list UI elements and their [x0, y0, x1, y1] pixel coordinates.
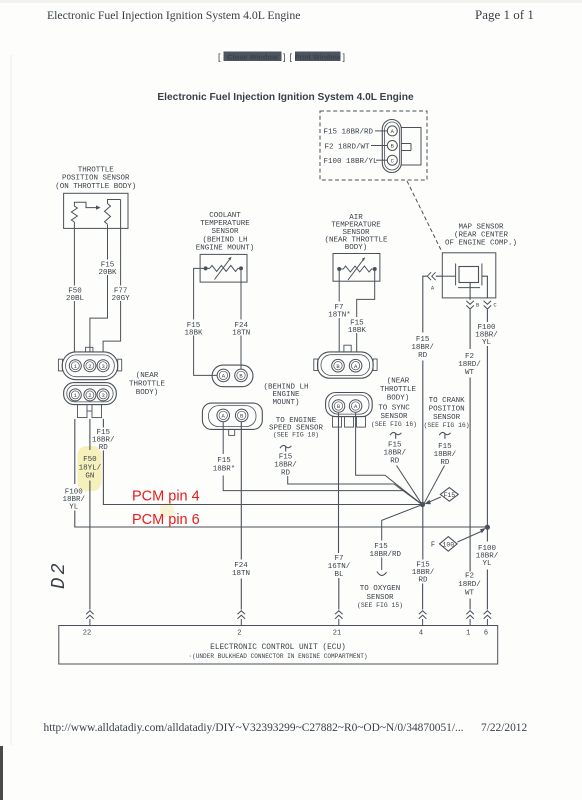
- wire oxygen sensor branch: [377, 505, 423, 576]
- connector detail body: [382, 120, 401, 173]
- air thermistor: [337, 257, 377, 280]
- close window button: [218, 52, 286, 63]
- to oxygen sensor label: [357, 585, 403, 609]
- svg-text:(ON THROTTLE BODY): (ON THROTTLE BODY): [55, 183, 136, 191]
- svg-text:16TN/: 16TN/: [328, 563, 351, 571]
- diagram heading: [157, 92, 414, 103]
- wire F15 pin3: [103, 419, 420, 505]
- svg-text:]: ]: [283, 52, 286, 62]
- label F50 18YL/GN: [79, 456, 102, 481]
- label F15 18BR/RD pin3: [92, 429, 115, 452]
- svg-text:MAP SENSOR: MAP SENSOR: [458, 223, 504, 231]
- label F100 18BR/YL pin1: [63, 489, 86, 512]
- label F15 18BR/RD oxygen: [370, 543, 402, 559]
- air male pin B: [332, 359, 345, 372]
- wire TPS left F50: [73, 222, 75, 353]
- wire crank stub to junction: [424, 466, 444, 504]
- svg-text:F: F: [431, 542, 435, 550]
- coolant female pin B: [235, 409, 248, 422]
- svg-text:F15: F15: [217, 457, 231, 465]
- wire coolant right F24: [240, 271, 242, 370]
- svg-text:(NEAR: (NEAR: [387, 378, 410, 386]
- svg-text:THROTTLE: THROTTLE: [78, 167, 115, 175]
- svg-text:(SEE FIG 16): (SEE FIG 16): [371, 421, 417, 428]
- sync stub symbol: [390, 432, 401, 438]
- TPS male pin 3: [97, 360, 109, 372]
- svg-text:THROTTLE: THROTTLE: [129, 381, 166, 389]
- ECU box: [59, 626, 498, 665]
- label F15 18BR/RD map A upper: [411, 336, 434, 360]
- svg-text:COOLANT: COOLANT: [209, 212, 241, 220]
- page header title: [47, 8, 300, 22]
- svg-text:18BR/: 18BR/: [411, 344, 434, 352]
- MAP pin B chevron: [466, 301, 480, 309]
- coolant male pin B: [235, 369, 248, 382]
- to crank position sensor label: [424, 397, 470, 429]
- svg-text:20BK: 20BK: [98, 269, 117, 277]
- svg-text:1: 1: [466, 630, 470, 638]
- pin A circle: [387, 126, 397, 136]
- svg-text:SENSOR: SENSOR: [433, 414, 461, 422]
- MAP pin C chevron: [484, 301, 498, 309]
- air female pin B: [332, 400, 345, 413]
- svg-text:2: 2: [88, 392, 91, 399]
- svg-text:ELECTRONIC CONTROL UNIT (ECU): ELECTRONIC CONTROL UNIT (ECU): [210, 644, 346, 652]
- svg-text:TO OXYGEN: TO OXYGEN: [360, 585, 401, 593]
- near throttle body label: [129, 372, 166, 397]
- wire MAP C: [482, 276, 488, 609]
- svg-text:18YL/: 18YL/: [79, 464, 102, 472]
- TPS male pin 1: [69, 360, 81, 372]
- svg-text:ENGINE MOUNT): ENGINE MOUNT): [196, 245, 255, 253]
- label F24 18TN: [232, 322, 250, 338]
- svg-text:GN: GN: [85, 473, 94, 481]
- wire F15 18BR/RD to pin A: [324, 129, 388, 137]
- svg-text:PCM pin 4: PCM pin 4: [132, 489, 200, 505]
- wire coolant A to junction: [223, 422, 421, 504]
- svg-text:YL: YL: [69, 504, 79, 512]
- svg-text:18BK: 18BK: [348, 327, 367, 335]
- svg-text:F50: F50: [83, 456, 97, 464]
- svg-text:(REAR CENTER: (REAR CENTER: [454, 232, 509, 240]
- coolant temperature sensor label: [196, 212, 255, 253]
- svg-text:F15: F15: [443, 492, 455, 499]
- svg-text:6: 6: [484, 630, 488, 638]
- svg-text:F15: F15: [388, 442, 402, 450]
- svg-text:SENSOR: SENSOR: [366, 594, 394, 602]
- svg-text:TEMPERATURE: TEMPERATURE: [200, 220, 250, 228]
- engine speed stub symbol: [280, 445, 291, 451]
- ECU pin number 21: [333, 630, 341, 638]
- svg-text:F15: F15: [374, 543, 388, 551]
- svg-text:(SEE FIG 15): (SEE FIG 15): [357, 602, 403, 609]
- footer date: [481, 722, 528, 734]
- svg-text:F2: F2: [465, 353, 474, 361]
- wire MAP B: [469, 283, 471, 610]
- air female pin A: [349, 400, 362, 413]
- ECU name label: [188, 644, 367, 660]
- coolant female pin A: [217, 409, 230, 422]
- label F100 18BR/YL lower: [476, 545, 499, 568]
- svg-text:F100 18BR/YL: F100 18BR/YL: [324, 158, 379, 166]
- svg-text:BODY): BODY): [387, 395, 410, 403]
- wire sync stub to junction: [397, 466, 422, 504]
- ECU connector chevron pin 4: [419, 611, 427, 626]
- svg-text:(SEE FIG 16): (SEE FIG 16): [424, 422, 470, 429]
- air male pin A: [349, 359, 362, 372]
- TPS terminal block: [78, 405, 102, 418]
- svg-text:21: 21: [333, 630, 341, 638]
- svg-text:F15: F15: [279, 454, 293, 462]
- splice diamond F15: [424, 488, 458, 505]
- svg-text:WT: WT: [465, 590, 475, 598]
- label F15 18BR/RD sync: [383, 442, 406, 466]
- svg-text:PCM pin 6: PCM pin 6: [132, 512, 200, 528]
- page number: [475, 7, 534, 22]
- wire coolant left F15 18BK: [194, 268, 217, 375]
- svg-text:TO SYNC: TO SYNC: [378, 405, 410, 413]
- dashed leader to MAP sensor: [407, 181, 442, 252]
- svg-text:Print Window: Print Window: [295, 52, 341, 61]
- svg-text:Electronic Fuel Injection Igni: Electronic Fuel Injection Ignition Syste…: [157, 92, 414, 103]
- svg-text:2: 2: [237, 630, 241, 638]
- PCM pin 4 annotation: [132, 489, 200, 505]
- label F2 18RD/WT upper: [458, 353, 481, 377]
- label F15 18BK air: [348, 320, 367, 336]
- ECU pin number 22: [83, 630, 91, 638]
- wire air A to junction: [356, 413, 422, 504]
- air sensor box: [333, 254, 380, 282]
- TPS female connector: [64, 383, 117, 405]
- splice diamond F100: [431, 528, 486, 551]
- svg-text:18BR/: 18BR/: [274, 462, 297, 470]
- label F2 18RD/WT lower: [458, 573, 481, 598]
- svg-text:Close Window: Close Window: [227, 52, 278, 61]
- svg-text:BL: BL: [334, 571, 344, 579]
- TPS wiper arrow: [74, 202, 100, 210]
- svg-text:(NEAR: (NEAR: [136, 372, 159, 380]
- svg-text:3: 3: [101, 363, 104, 370]
- wire F100 pin1: [75, 419, 488, 527]
- ECU pin number 4: [419, 630, 423, 638]
- svg-text:http://www.alldatadiy.com/alld: http://www.alldatadiy.com/alldatadiy/DIY…: [44, 722, 464, 734]
- throttle position sensor box: [64, 193, 128, 228]
- svg-text:]: ]: [343, 52, 346, 62]
- wire TPS right F77: [103, 200, 121, 353]
- to sync sensor label: [371, 405, 417, 429]
- svg-text:20GY: 20GY: [112, 295, 131, 303]
- label F15 18BR/RD pin4: [412, 562, 435, 585]
- label F7 18TN*: [328, 304, 351, 320]
- yellow smudge near PCM pin lines: [160, 503, 174, 517]
- svg-text:F15: F15: [416, 336, 430, 344]
- svg-text:18BR/RD: 18BR/RD: [370, 551, 402, 559]
- svg-text:SENSOR: SENSOR: [380, 413, 408, 421]
- svg-text:18TN: 18TN: [232, 330, 250, 338]
- handwritten D2 blue: [48, 560, 70, 589]
- near throttle body label air: [380, 378, 417, 403]
- label F15 18BR*: [213, 457, 236, 474]
- TPS female pin 2: [84, 389, 96, 401]
- svg-text:MOUNT): MOUNT): [272, 399, 299, 407]
- TPS female pin 1: [69, 389, 81, 401]
- svg-text:F15: F15: [438, 443, 452, 451]
- label F24 18TN lower: [232, 562, 250, 578]
- coolant female connector: [202, 403, 262, 435]
- air male connector: [314, 345, 377, 378]
- pin C circle: [387, 155, 397, 165]
- coolant male connector: [212, 365, 253, 387]
- svg-text:(BEHIND LH: (BEHIND LH: [202, 236, 247, 244]
- PCM pin 6 annotation: [132, 512, 200, 528]
- svg-text:F15 18BR/RD: F15 18BR/RD: [324, 129, 374, 137]
- label F7 16TN/BL lower: [328, 555, 351, 579]
- label F15 18BK: [184, 322, 203, 338]
- svg-text:D2: D2: [48, 560, 70, 589]
- svg-text:4: 4: [419, 630, 423, 638]
- svg-text:THROTTLE: THROTTLE: [380, 386, 417, 394]
- wire F100 18BR/YL to pin C: [324, 158, 388, 166]
- svg-text:RD: RD: [418, 352, 428, 360]
- wire coolant B to ECU pin 2: [240, 422, 242, 610]
- svg-text:18TN*: 18TN*: [328, 312, 351, 320]
- svg-text:SENSOR: SENSOR: [211, 228, 239, 236]
- svg-text:F24: F24: [234, 562, 248, 570]
- svg-text:RD: RD: [99, 444, 109, 452]
- ECU pin number 6: [484, 630, 488, 638]
- svg-text:18RD/: 18RD/: [458, 361, 481, 369]
- ECU connector chevron pin 22: [86, 611, 94, 626]
- air terminal block: [333, 417, 366, 428]
- footer url text: [44, 722, 464, 734]
- ECU pin number 2: [237, 630, 241, 638]
- svg-text:POSITION: POSITION: [429, 406, 465, 414]
- svg-text:OF ENGINE COMP.): OF ENGINE COMP.): [445, 240, 517, 248]
- TPS male pin 2: [84, 360, 96, 372]
- air female connector: [326, 393, 373, 417]
- junction node splice 1: [420, 502, 425, 507]
- svg-text:18RD/: 18RD/: [458, 581, 481, 589]
- wire air left F7: [338, 271, 340, 353]
- throttle position sensor label: [55, 167, 136, 191]
- wire air B to ECU pin 21: [338, 413, 340, 610]
- TPS male connector: [58, 347, 121, 379]
- label F100 18BR/YL map C upper: [475, 324, 498, 347]
- label F15 20BK: [98, 261, 117, 277]
- label F50 20BL: [66, 288, 85, 304]
- TPS female pin 3: [97, 389, 109, 401]
- svg-text:2: 2: [88, 363, 91, 370]
- MAP sensor label: [445, 223, 517, 247]
- svg-text:(SEE FIG 18): (SEE FIG 18): [273, 432, 319, 439]
- crank stub symbol: [439, 432, 450, 438]
- to engine speed sensor label: [269, 417, 324, 439]
- svg-text:RD: RD: [440, 459, 450, 467]
- svg-text:22: 22: [83, 630, 91, 638]
- MAP sensor box: [442, 253, 496, 298]
- wire F50 pin2: [89, 419, 91, 610]
- svg-text:3: 3: [101, 392, 104, 399]
- svg-text:WT: WT: [465, 369, 475, 377]
- svg-text:POSITION SENSOR: POSITION SENSOR: [62, 175, 130, 183]
- svg-text:18BR/: 18BR/: [434, 451, 457, 459]
- MAP sensor element: [456, 264, 482, 288]
- svg-text:·(UNDER BULKHEAD CONNECTOR IN: ·(UNDER BULKHEAD CONNECTOR IN ENGINE COM…: [188, 653, 367, 660]
- pin B circle: [387, 141, 397, 151]
- TPS resistor right: [105, 200, 121, 225]
- svg-text:18BK: 18BK: [184, 330, 203, 338]
- label F15 18BR/RD speed: [274, 454, 297, 478]
- svg-text:F2: F2: [465, 573, 474, 581]
- ECU connector chevron pin 21: [235, 611, 343, 626]
- svg-text:18TN: 18TN: [232, 570, 250, 578]
- ECU connector chevron pin 2: [238, 611, 246, 626]
- scan edge artifact left: [0, 55, 12, 800]
- svg-text:YL: YL: [482, 560, 492, 568]
- connector detail dashed box: [320, 111, 427, 180]
- svg-text:Page 1 of 1: Page 1 of 1: [475, 7, 534, 22]
- svg-text:100: 100: [442, 541, 454, 548]
- svg-text:F7: F7: [334, 555, 343, 563]
- coolant male pin A: [217, 369, 230, 382]
- svg-text:TO CRANK: TO CRANK: [429, 397, 466, 405]
- svg-text:F2 18RD/WT: F2 18RD/WT: [325, 143, 371, 151]
- label F77 20GY: [112, 288, 131, 304]
- svg-text:RD: RD: [281, 469, 291, 477]
- svg-text:Electronic Fuel Injection Igni: Electronic Fuel Injection Ignition Syste…: [47, 8, 300, 22]
- behind LH engine mount label: [263, 384, 308, 407]
- svg-text:YL: YL: [482, 339, 492, 347]
- connector detail key tab: [401, 128, 421, 166]
- wire air right F15: [357, 271, 375, 353]
- svg-text:18BR*: 18BR*: [213, 466, 236, 474]
- wire MAP A: [423, 276, 456, 609]
- ECU connector chevron pin 6: [484, 611, 492, 626]
- svg-text:BODY): BODY): [345, 244, 368, 252]
- svg-text:BODY): BODY): [136, 389, 159, 397]
- TPS resistor left: [71, 206, 77, 222]
- ECU connector chevron pin 1: [466, 611, 474, 626]
- yellow highlighter mark: [78, 446, 102, 491]
- svg-text:20BL: 20BL: [66, 295, 85, 303]
- wire TPS wiper F15: [90, 225, 108, 353]
- air temperature sensor label: [324, 214, 388, 252]
- coolant sensor box: [200, 254, 247, 282]
- wire F2 18RD/WT to pin B: [325, 143, 388, 151]
- junction node splice 2: [485, 525, 490, 530]
- print window button: [290, 52, 346, 63]
- wire speed stub to junction: [288, 476, 421, 504]
- ECU pin number 1: [466, 630, 470, 638]
- svg-text:18BR/: 18BR/: [383, 450, 406, 458]
- svg-text:7/22/2012: 7/22/2012: [481, 722, 528, 734]
- coolant thermistor: [204, 257, 243, 280]
- svg-text:RD: RD: [418, 577, 428, 585]
- svg-text:RD: RD: [390, 458, 400, 466]
- label F15 18BR/RD crank: [434, 443, 457, 467]
- MAP pin A chevron: [427, 272, 435, 291]
